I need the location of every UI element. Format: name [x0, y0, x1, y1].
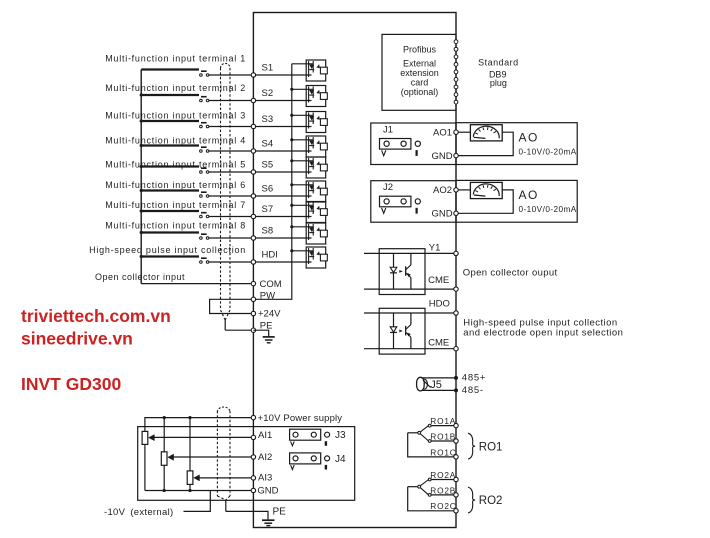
optocoupler input S5	[306, 157, 327, 178]
terminal PE	[251, 328, 255, 332]
jumper J1	[380, 124, 421, 156]
svg-text:RO1C: RO1C	[430, 447, 456, 457]
svg-text:triviettech.com.vn: triviettech.com.vn	[21, 306, 171, 326]
switch S5 contacts	[200, 171, 203, 174]
wire AO1 to meter	[456, 131, 470, 133]
switch S4 blade	[201, 146, 207, 148]
wire row S1 from bus to switch	[141, 68, 199, 70]
svg-text:J2: J2	[383, 182, 393, 193]
svg-text:RO1A: RO1A	[430, 416, 456, 426]
terminal S6	[251, 194, 255, 198]
optocoupler input S6 branch wire	[292, 184, 313, 186]
svg-text:RO1B: RO1B	[430, 431, 456, 441]
terminal +24V	[251, 311, 255, 315]
terminal S2	[251, 98, 255, 102]
optocoupler input S5 branch wire	[292, 160, 313, 162]
shielded cable (analog inputs)	[217, 407, 230, 511]
svg-text:HDI: HDI	[262, 250, 278, 261]
svg-text:Multi-function input terminal: Multi-function input terminal 1	[105, 54, 246, 64]
svg-text:S5: S5	[262, 160, 274, 171]
terminal S1	[251, 73, 255, 77]
DB9 connector pins	[454, 40, 458, 104]
terminal GND (J2)	[454, 211, 458, 215]
terminal 485+	[454, 376, 458, 380]
terminal Y1	[454, 251, 458, 255]
svg-text:485+: 485+	[462, 373, 486, 384]
svg-text:Multi-function input terminal: Multi-function input terminal 3	[105, 111, 246, 121]
terminal +10V	[251, 415, 255, 419]
shielded cable (digital inputs)	[221, 63, 231, 330]
svg-text:0-10V/0-20mA: 0-10V/0-20mA	[519, 148, 577, 157]
terminal RO2A	[454, 477, 458, 481]
meter AO2	[470, 182, 502, 198]
junction bus/S6	[140, 189, 143, 192]
optocoupler input S8	[306, 223, 327, 244]
junction bus/S5	[140, 165, 143, 168]
junction bus/HDI	[140, 255, 143, 258]
brace RO1	[468, 433, 475, 459]
terminal HDI	[251, 260, 255, 264]
terminal 485-	[454, 388, 458, 392]
svg-text:S2: S2	[262, 88, 274, 99]
svg-text:J4: J4	[335, 454, 346, 465]
optocoupler input S4	[306, 136, 327, 157]
svg-text:J1: J1	[383, 124, 393, 135]
svg-text:Open collector input: Open collector input	[95, 272, 185, 282]
junction +10V/pot2	[163, 416, 166, 419]
svg-text:CME: CME	[428, 275, 449, 286]
svg-text:INVT GD300: INVT GD300	[21, 374, 121, 394]
terminal CME2	[454, 347, 458, 351]
svg-text:+10V Power supply: +10V Power supply	[258, 413, 343, 424]
svg-text:RO2C: RO2C	[430, 501, 456, 511]
svg-text:Y1: Y1	[429, 243, 441, 254]
connector J5 (485)	[417, 377, 456, 391]
terminal GND	[251, 488, 255, 492]
potentiometer P3	[187, 471, 200, 485]
wire AO2 to meter	[456, 189, 470, 191]
wire switch S7 to terminal and optocoupler	[209, 216, 312, 218]
svg-text:S1: S1	[262, 63, 274, 74]
wire -10V external to analog rail	[184, 491, 211, 512]
switch S7 contacts	[200, 215, 203, 218]
ground symbol (analog PE)	[262, 520, 275, 525]
junction rail/pot3	[188, 489, 191, 492]
left switch common bus	[140, 70, 142, 284]
junction rail/pot2	[163, 489, 166, 492]
svg-text:card: card	[411, 77, 429, 87]
switch S2 blade	[201, 96, 207, 98]
svg-text:sineedrive.vn: sineedrive.vn	[21, 329, 133, 349]
svg-text:GND: GND	[257, 486, 278, 497]
wire switch S6 to terminal and optocoupler	[209, 195, 312, 197]
terminal AO1	[454, 130, 458, 134]
wire row S5 from bus to switch	[141, 165, 199, 167]
junction rail/S7	[290, 204, 293, 207]
optocoupler input S3 branch wire	[292, 114, 313, 116]
svg-text:AI2: AI2	[258, 452, 272, 463]
optocoupler input S1	[306, 60, 327, 81]
optocoupler input S2	[306, 86, 327, 107]
svg-text:PE: PE	[273, 507, 287, 518]
switch S4 contacts	[200, 150, 203, 153]
terminal S3	[251, 124, 255, 128]
svg-text:S8: S8	[262, 226, 274, 237]
terminal S5	[251, 170, 255, 174]
svg-text:J3: J3	[335, 430, 346, 441]
svg-text:RO2A: RO2A	[430, 470, 456, 480]
svg-text:S3: S3	[262, 114, 274, 125]
relay RO2 contacts	[408, 478, 456, 511]
svg-text:HDO: HDO	[429, 299, 450, 310]
svg-text:Multi-function input terminal: Multi-function input terminal 7	[105, 200, 246, 210]
switch S8 contacts	[200, 237, 203, 240]
optocoupler input HDI	[306, 247, 327, 268]
svg-text:AO1: AO1	[433, 128, 452, 139]
analog output meter box AO1	[456, 123, 577, 165]
svg-text:AI3: AI3	[258, 473, 272, 484]
label High-speed pulse description	[463, 318, 623, 339]
switch S6 blade	[201, 191, 207, 193]
switch S3 blade	[201, 122, 207, 124]
jumper loop PW to +24V	[210, 299, 254, 313]
svg-text:plug: plug	[490, 78, 507, 88]
svg-text:Multi-function input terminal: Multi-function input terminal 6	[105, 180, 246, 190]
wire switch S5 to terminal and optocoupler	[209, 171, 312, 173]
svg-text:Multi-function input terminal: Multi-function input terminal 2	[105, 83, 246, 93]
junction rail/S6	[290, 183, 293, 186]
junction +10V/pot3	[188, 416, 191, 419]
wire row S7 from bus to switch	[141, 210, 199, 212]
analog output config box J1	[371, 123, 456, 165]
potentiometer P2	[161, 452, 174, 466]
brace RO2	[468, 487, 475, 513]
terminal AI1	[251, 435, 255, 439]
optocoupler input HDI branch wire	[292, 250, 313, 252]
svg-text:S7: S7	[262, 204, 274, 215]
wire PE to ground	[253, 330, 268, 336]
inverter main frame	[253, 13, 456, 528]
wire row S2 from bus to switch	[141, 94, 199, 96]
wire +10V rail	[145, 418, 254, 432]
wire analog shield to PE ground	[226, 511, 268, 519]
switch S2 contacts	[200, 99, 203, 102]
potentiometer riser 3	[189, 418, 191, 471]
optocoupler input S2 branch wire	[292, 88, 313, 90]
jumper J2	[380, 182, 421, 214]
junction bus/S2	[140, 93, 143, 96]
profibus extension card box	[382, 34, 456, 110]
potentiometer riser 2	[163, 418, 165, 452]
svg-text:High-speed pulse input collect: High-speed pulse input collection	[89, 245, 246, 255]
terminal RO2C	[454, 509, 458, 513]
wire row HDI from bus to switch	[141, 255, 199, 257]
switch S1 contacts	[200, 74, 203, 77]
switch S1 blade	[201, 70, 207, 72]
svg-text:+24V: +24V	[258, 309, 281, 320]
svg-text:COM: COM	[260, 279, 282, 290]
svg-text:GND: GND	[431, 209, 452, 220]
wire P1 wiper to AI1	[154, 436, 253, 438]
svg-text:485-: 485-	[462, 385, 484, 396]
switch S7 blade	[201, 212, 207, 214]
terminal AI2	[251, 455, 255, 459]
wire meter to GND (AO2)	[456, 190, 513, 213]
potentiometer P1	[142, 431, 155, 444]
ground symbol (digital PE)	[263, 337, 275, 343]
wire switch S1 to terminal and optocoupler	[209, 74, 312, 76]
optocoupler input S4 branch wire	[292, 139, 313, 141]
svg-text:S6: S6	[262, 184, 274, 195]
junction rail/S5	[290, 159, 293, 162]
profibus box text	[400, 44, 439, 97]
wire P1 bottom stub	[144, 444, 146, 490]
svg-text:AI1: AI1	[258, 430, 272, 441]
wire row S8 from bus to switch	[141, 231, 199, 233]
optocoupler output HDO	[364, 308, 456, 354]
wire row S3 from bus to switch	[141, 120, 199, 122]
junction rail/S4	[290, 138, 293, 141]
wire P2 wiper to AI2	[173, 456, 253, 458]
relay RO1 contacts	[408, 424, 456, 457]
terminal S7	[251, 214, 255, 218]
wire row S4 from bus to switch	[141, 144, 199, 146]
svg-text:-10V (external): -10V (external)	[104, 507, 173, 518]
switch S3 contacts	[200, 125, 203, 128]
optocoupler output Y1	[364, 249, 456, 295]
svg-text:S4: S4	[262, 139, 274, 150]
svg-text:Open collector ouput: Open collector ouput	[463, 268, 558, 279]
junction rail/S3	[290, 114, 293, 117]
svg-text:J5: J5	[430, 379, 442, 391]
svg-text:Multi-function input terminal: Multi-function input terminal 5	[105, 160, 246, 170]
terminal GND (J1)	[454, 153, 458, 157]
junction rail/S8	[290, 225, 293, 228]
terminal HDO	[454, 311, 458, 315]
svg-text:AO: AO	[519, 188, 539, 202]
svg-text:and electrode open input selec: and electrode open input selection	[463, 327, 623, 338]
terminal CME	[454, 287, 458, 291]
jumper J4	[290, 453, 346, 470]
junction bus/S7	[140, 209, 143, 212]
svg-text:CME: CME	[428, 338, 449, 349]
terminal RO1A	[454, 423, 458, 427]
svg-text:RO2B: RO2B	[430, 485, 456, 495]
meter AO1	[470, 125, 502, 141]
wire P3 wiper to AI3	[199, 477, 253, 479]
svg-text:RO1: RO1	[479, 441, 503, 453]
terminal AI3	[251, 476, 255, 480]
optocoupler supply rail (from PW)	[291, 64, 293, 299]
svg-text:Multi-function input terminal: Multi-function input terminal 8	[105, 221, 246, 231]
svg-text:Standard: Standard	[478, 58, 519, 68]
jumper J3	[290, 429, 346, 446]
svg-text:RO2: RO2	[479, 495, 503, 507]
wire bus to COM terminal	[141, 283, 253, 285]
svg-text:Multi-function input terminal: Multi-function input terminal 4	[105, 136, 246, 146]
junction rail/HDI	[290, 249, 293, 252]
svg-text:Profibus: Profibus	[403, 44, 437, 54]
label Standard DB9 plug	[478, 58, 519, 88]
terminal PW	[251, 297, 255, 301]
terminal RO2B	[454, 493, 458, 497]
svg-text:AO: AO	[519, 131, 539, 145]
switch S6 contacts	[200, 195, 203, 198]
optocoupler input S6	[306, 181, 327, 202]
svg-text:AO2: AO2	[433, 185, 452, 196]
analog I/O enclosure box	[138, 427, 355, 501]
analog output config box J2	[371, 181, 456, 223]
switch S8 blade	[201, 233, 207, 235]
optocoupler input S7	[306, 202, 327, 223]
svg-text:GND: GND	[431, 151, 452, 162]
wire switch S3 to terminal and optocoupler	[209, 126, 312, 128]
junction bus/S4	[140, 144, 143, 147]
optocoupler input S8 branch wire	[292, 226, 313, 228]
terminal S4	[251, 149, 255, 153]
wire switch HDI to terminal and optocoupler	[209, 261, 312, 263]
analog output meter box AO2	[456, 180, 577, 222]
wire meter to GND (AO1)	[456, 132, 513, 155]
wire row S6 from bus to switch	[141, 189, 199, 191]
junction bus/S3	[140, 119, 143, 122]
switch S5 blade	[201, 167, 207, 169]
terminal S8	[251, 236, 255, 240]
terminal AO2	[454, 188, 458, 192]
wire switch S4 to terminal and optocoupler	[209, 150, 312, 152]
svg-text:0-10V/0-20mA: 0-10V/0-20mA	[519, 205, 577, 214]
switch HDI contacts	[200, 261, 203, 264]
wire switch S2 to terminal and optocoupler	[209, 100, 312, 102]
terminal RO1C	[454, 455, 458, 459]
optocoupler input S1 branch wire	[292, 63, 313, 65]
optocoupler input S7 branch wire	[292, 204, 313, 206]
terminal RO1B	[454, 439, 458, 443]
wire P2 bottom stub	[163, 465, 165, 490]
wire P3 bottom stub	[189, 484, 191, 490]
svg-text:(optional): (optional)	[401, 87, 439, 97]
junction bus/S8	[140, 231, 143, 234]
junction rail/S2	[290, 88, 293, 91]
wire PW to optocoupler rail	[253, 298, 291, 300]
wire shield to PE terminal	[225, 329, 253, 331]
terminal COM	[251, 281, 255, 285]
optocoupler input S3	[306, 112, 327, 133]
wire switch S8 to terminal and optocoupler	[209, 237, 312, 239]
wire analog common rail to GND	[145, 490, 254, 492]
switch HDI blade	[201, 257, 207, 259]
svg-text:PW: PW	[260, 291, 275, 302]
